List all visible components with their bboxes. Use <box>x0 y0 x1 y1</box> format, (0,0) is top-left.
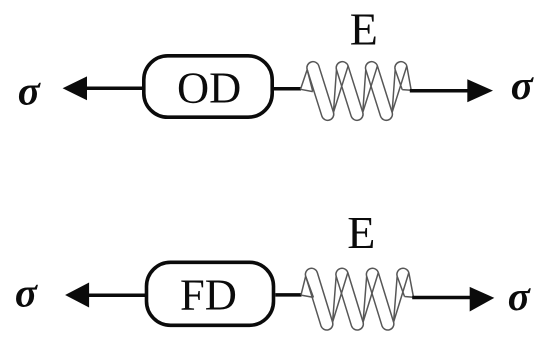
coil back strand 2 (bot) <box>363 273 378 323</box>
arrowhead (bottom right, pointing right) <box>470 287 495 312</box>
coil start wedge (bot) <box>301 276 313 297</box>
arrowhead (top left, pointing left) <box>63 76 87 100</box>
coil back strand 1 (bot) <box>333 273 348 323</box>
arrow shaft (bottom left wire) <box>87 293 145 297</box>
element FD (rounded box) <box>147 262 274 325</box>
svg-text:E: E <box>347 207 375 258</box>
svg-text:σ: σ <box>511 62 535 108</box>
coil loop 3 (bot) <box>366 268 393 330</box>
wire box to spring (bottom) <box>275 293 301 297</box>
coil back strand 3 (top) <box>392 66 407 112</box>
svg-text:E: E <box>350 4 378 55</box>
coil loop 2 (bot) <box>336 268 363 330</box>
arrow shaft (top left wire) <box>85 87 143 91</box>
coil start wedge (top) <box>301 70 313 92</box>
svg-text:σ: σ <box>18 68 42 114</box>
coil loop 1 (bot) <box>305 268 332 330</box>
coil back strand 2 (top) <box>363 66 378 112</box>
coil back strand 1 (top) <box>333 66 348 112</box>
coil loop 4 (bot) <box>397 268 414 297</box>
wire box to spring (top) <box>274 87 301 91</box>
coil loop 3 (top) <box>365 62 392 121</box>
wire spring to arrow (top right) <box>410 89 469 93</box>
coil loop 4 (top) <box>395 62 411 91</box>
coil back strand 3 (bot) <box>394 273 409 323</box>
arrowhead (top right, pointing right) <box>467 79 493 102</box>
arrowhead (bottom left, pointing left) <box>65 283 89 308</box>
svg-text:FD: FD <box>180 269 237 319</box>
svg-text:σ: σ <box>15 270 39 316</box>
svg-text:OD: OD <box>177 63 241 113</box>
coil loop 2 (top) <box>336 62 363 121</box>
element OD (rounded box) <box>144 56 272 117</box>
wire spring to arrow (bottom right) <box>412 296 471 300</box>
coil loop 1 (top) <box>307 62 334 121</box>
svg-text:σ: σ <box>508 273 532 319</box>
